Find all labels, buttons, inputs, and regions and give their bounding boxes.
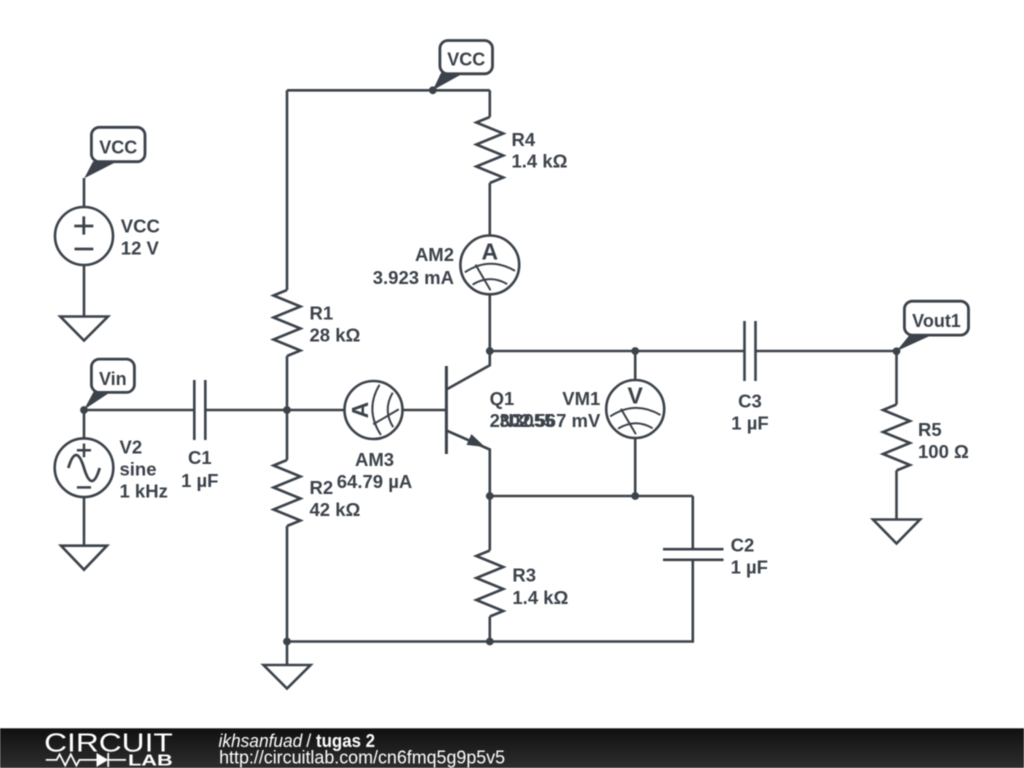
- wire AM3 to Q1 base: [403, 409, 447, 412]
- svg-text:VCC: VCC: [99, 138, 137, 158]
- voltage source V2 sine: [55, 438, 114, 497]
- svg-text:302.567 mV: 302.567 mV: [499, 410, 600, 431]
- wire Vin node to C1: [84, 409, 194, 412]
- svg-text:Q1: Q1: [490, 388, 515, 409]
- capacitor C1: [194, 380, 205, 440]
- node dot VM1 top: [631, 347, 639, 355]
- flag VCC top: [433, 41, 493, 91]
- resistor R4: [476, 117, 503, 183]
- wire collector rail to C3: [490, 350, 745, 353]
- svg-text:LAB: LAB: [128, 753, 173, 768]
- node dot collector: [486, 347, 494, 355]
- svg-text:VCC: VCC: [121, 216, 160, 237]
- svg-text:AM3: AM3: [355, 449, 394, 470]
- node dot Vin: [80, 406, 88, 414]
- svg-text:Vout1: Vout1: [912, 311, 961, 331]
- wire VM1 top stub: [634, 351, 637, 380]
- ground bottom rail: [264, 665, 311, 689]
- svg-text:http://circuitlab.com/cn6fmq5g: http://circuitlab.com/cn6fmq5g9p5v5: [219, 748, 505, 768]
- svg-text:Vin: Vin: [99, 369, 127, 389]
- wire R1 bottom to base node: [286, 356, 289, 410]
- resistor R2: [274, 460, 301, 526]
- footer author line: [219, 731, 506, 768]
- svg-text:C2: C2: [731, 534, 755, 555]
- svg-text:1.4 kΩ: 1.4 kΩ: [512, 587, 568, 608]
- wire V2 to ground: [83, 497, 86, 546]
- wire base node to R2: [286, 410, 289, 460]
- svg-text:1 µF: 1 µF: [181, 470, 218, 491]
- wire emitter rail corner down to C2: [691, 496, 694, 549]
- footer bar: [0, 728, 1024, 768]
- wire VM1 bottom stub: [634, 438, 637, 496]
- svg-text:R1: R1: [310, 303, 334, 324]
- transistor Q1: [446, 351, 489, 496]
- svg-text:1 µF: 1 µF: [731, 557, 768, 578]
- svg-text:VCC: VCC: [447, 49, 485, 69]
- capacitor C3: [745, 321, 756, 381]
- svg-text:64.79 µA: 64.79 µA: [337, 471, 412, 492]
- wire emitter node to R3: [488, 496, 491, 551]
- ammeter AM3: [345, 381, 403, 439]
- svg-text:A: A: [347, 402, 373, 419]
- wire top rail to R4: [488, 90, 491, 117]
- svg-text:AM2: AM2: [415, 244, 454, 265]
- wire VCC flag left to V1: [83, 178, 86, 207]
- node dot bottom rail left: [283, 638, 291, 646]
- svg-text:42 kΩ: 42 kΩ: [310, 499, 361, 520]
- capacitor C2: [663, 549, 724, 560]
- wire R3 to bottom rail: [488, 617, 491, 642]
- ground under R5: [873, 520, 920, 544]
- wire left riser top rail to R1: [286, 90, 289, 290]
- svg-text:28 kΩ: 28 kΩ: [310, 325, 361, 346]
- flag Vin: [84, 359, 134, 410]
- logo resistor-diode glyph: [46, 753, 126, 767]
- wire R2 bottom to bottom rail: [286, 526, 289, 642]
- resistor R1: [274, 290, 301, 356]
- wire Vin node to V2: [83, 410, 86, 439]
- wire C2 to bottom rail: [287, 560, 693, 642]
- svg-text:C3: C3: [738, 390, 762, 411]
- svg-text:R3: R3: [512, 565, 536, 586]
- voltage source V1 VCC 12V: [55, 207, 113, 265]
- svg-text:3.923 mA: 3.923 mA: [373, 267, 454, 288]
- wire AM2 to collector node: [488, 294, 491, 351]
- wire R5 to ground: [895, 471, 898, 520]
- svg-text:1.4 kΩ: 1.4 kΩ: [512, 151, 568, 172]
- svg-text:V: V: [628, 383, 644, 409]
- ammeter AM2: [460, 236, 519, 295]
- wire emitter rail: [490, 495, 693, 498]
- wire C3 to Vout1 node: [756, 350, 897, 353]
- svg-text:R2: R2: [310, 477, 334, 498]
- ground under V1: [60, 317, 108, 341]
- node dot VCC top: [429, 86, 437, 94]
- wire V1 to ground: [83, 265, 86, 317]
- ground under V2: [61, 546, 107, 570]
- node dot base divider: [283, 406, 291, 414]
- node dot emitter: [486, 492, 494, 500]
- wire R4 to AM2: [488, 183, 491, 236]
- svg-text:R4: R4: [512, 129, 536, 150]
- svg-text:V2: V2: [120, 437, 143, 458]
- flag Vout1: [896, 301, 968, 351]
- svg-text:A: A: [481, 238, 498, 264]
- wire C1 to base divider node: [205, 409, 287, 412]
- wire base divider node to AM3: [287, 409, 345, 412]
- node dot VM1 bottom: [631, 492, 639, 500]
- svg-text:VM1: VM1: [562, 388, 600, 409]
- svg-text:100 Ω: 100 Ω: [918, 441, 969, 462]
- svg-text:C1: C1: [188, 447, 212, 468]
- wire bottom rail ground stub: [286, 642, 289, 666]
- svg-text:R5: R5: [918, 419, 942, 440]
- flag VCC left: [84, 127, 145, 178]
- svg-text:sine: sine: [120, 459, 157, 480]
- svg-text:1 µF: 1 µF: [731, 412, 768, 433]
- svg-text:1 kHz: 1 kHz: [120, 481, 168, 502]
- node dot bottom rail R3: [486, 638, 494, 646]
- node dot Vout1: [893, 347, 901, 355]
- resistor R5: [883, 405, 910, 471]
- voltmeter VM1: [606, 380, 664, 438]
- svg-text:12 V: 12 V: [121, 238, 160, 259]
- wire top rail horizontal: [287, 89, 490, 92]
- resistor R3: [476, 551, 503, 617]
- wire Vout1 node to R5: [895, 351, 898, 405]
